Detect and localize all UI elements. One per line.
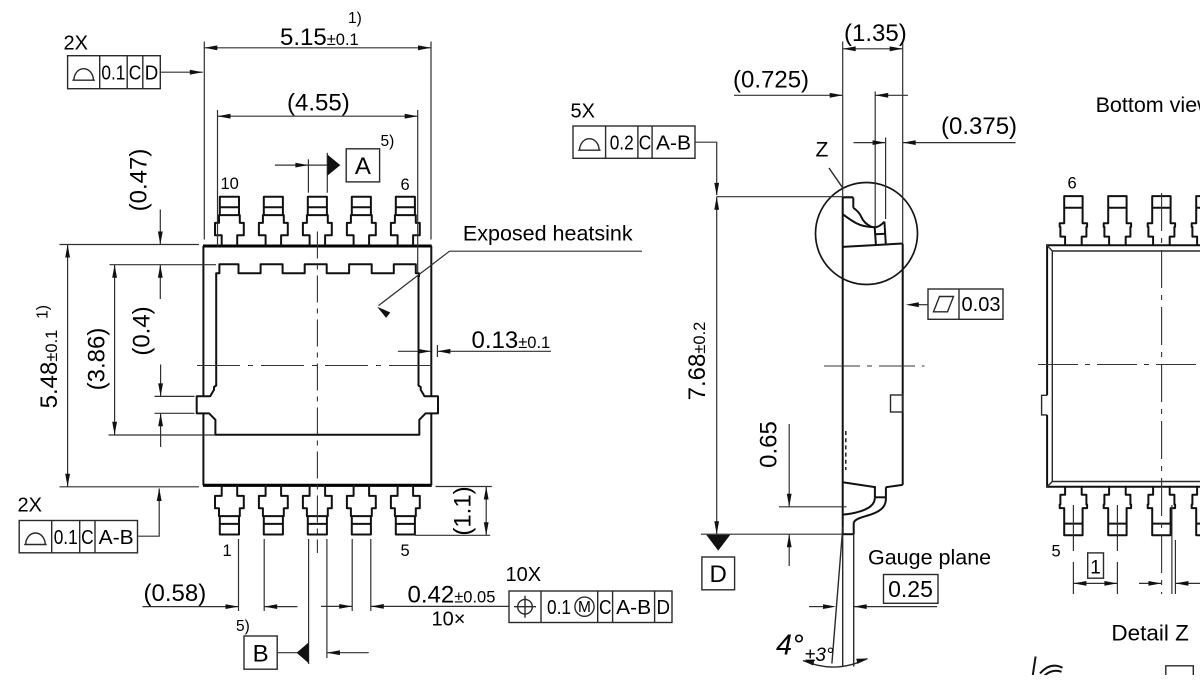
- detail Z enlarged lead fragment: [1033, 657, 1036, 676]
- svg-text:1): 1): [348, 10, 362, 27]
- front view top lead pin 10: [215, 197, 244, 247]
- bottom view pin 4 center extension line: [1116, 505, 1118, 551]
- extension line below pin at x=308.6: [308, 539, 310, 664]
- dim 0.25 box: [884, 575, 939, 604]
- side view mold gate mark on right face: [891, 395, 903, 412]
- svg-text:D: D: [710, 561, 727, 588]
- dim 0.65 dimension line lower tail: [788, 534, 790, 566]
- dim 5.48 extension line top: [60, 244, 200, 246]
- bottom view extension line a: [1171, 505, 1173, 594]
- extension line below pin at x=352.2: [351, 539, 353, 611]
- svg-text:A-B: A-B: [99, 527, 134, 549]
- svg-text:Exposed heatsink: Exposed heatsink: [463, 222, 633, 246]
- dim 7.68 extension line lead tip plane: [717, 196, 853, 198]
- gauge plane vertical line: [853, 534, 855, 666]
- svg-text:5: 5: [1052, 543, 1061, 561]
- dim 4 degree arc: [803, 659, 868, 668]
- datum B box: [244, 636, 277, 669]
- dim (1.1) extension line bottom: [415, 534, 490, 536]
- dim (3.86) extension line top: [110, 264, 217, 266]
- svg-text:C: C: [129, 63, 142, 85]
- side view left face and lead line: [842, 197, 844, 535]
- datum A box: [346, 149, 379, 182]
- svg-text:10: 10: [221, 175, 239, 193]
- svg-text:A: A: [355, 153, 371, 180]
- svg-text:C: C: [81, 527, 94, 549]
- svg-text:0.1: 0.1: [547, 597, 571, 619]
- datum D box: [702, 557, 735, 590]
- fcf top-left leader line: [160, 71, 203, 73]
- detail Z circle: [816, 183, 918, 285]
- dim (3.86) extension line bottom: [109, 434, 215, 436]
- side view top lead lower bend curve: [843, 214, 875, 227]
- svg-text:0.65: 0.65: [756, 421, 783, 468]
- bottom view horizontal centerline: [1038, 364, 1200, 366]
- side view body top draft edge: [843, 244, 903, 247]
- front view top lead pin 6: [391, 197, 420, 247]
- svg-text:0.1: 0.1: [101, 63, 125, 85]
- bottom view body outer outline: [1047, 245, 1200, 486]
- fcf position frame (position | 0.1 M | C | A-B | D): [509, 591, 672, 623]
- svg-text:10×: 10×: [432, 609, 466, 631]
- dim 0.65 dimension line upper: [788, 424, 790, 507]
- side view bottom lead foot right face: [853, 523, 855, 535]
- svg-text:0.2: 0.2: [610, 133, 634, 155]
- svg-text:2X: 2X: [18, 495, 42, 517]
- dim (0.47) dimension line lower tail: [159, 265, 161, 299]
- dim 7.68 dimension line: [716, 197, 718, 535]
- extension line below pin at x=264.2: [263, 539, 265, 611]
- exposed heatsink label underline: [450, 250, 643, 252]
- svg-text:1): 1): [35, 305, 52, 319]
- bottom view bottom lead pin 4: [1104, 486, 1131, 535]
- svg-text:(0.725): (0.725): [733, 67, 809, 94]
- datum B filled triangle: [297, 642, 309, 663]
- svg-text:A-B: A-B: [656, 133, 691, 155]
- front view bottom lead pin 2: [259, 485, 288, 535]
- fcf side leader line: [695, 142, 717, 195]
- svg-text:5): 5): [236, 618, 250, 635]
- svg-text:(0.375): (0.375): [941, 113, 1017, 140]
- front view package body bottom edge: [203, 484, 432, 487]
- front view package body left edge: [202, 246, 204, 396]
- dim 0.25 dimension line: [809, 606, 824, 608]
- bottom view pin 5 center extension line: [1072, 505, 1074, 551]
- side view top lead exit stub: [875, 227, 876, 244]
- side view top lead upper bend curve: [853, 208, 884, 228]
- extension line below pin at x=370.8: [370, 539, 372, 611]
- dim 5.48 extension line bottom: [60, 486, 200, 488]
- front view top lead pin 8: [303, 197, 332, 247]
- dim (4.55) extension line right: [417, 110, 419, 273]
- dim 5.15 extension line right: [430, 42, 432, 240]
- dim (0.375) dimension line: [854, 142, 886, 144]
- dim 0.13 dimension line left tail: [398, 350, 431, 352]
- side view top lead foot right face: [852, 197, 854, 207]
- datum A leader line: [275, 164, 327, 166]
- side view bottom lead foot bottom edge: [843, 533, 854, 535]
- svg-text:5): 5): [381, 133, 395, 150]
- dim (0.4) extension line top: [155, 395, 195, 397]
- svg-text:0.1: 0.1: [54, 527, 78, 549]
- dim (0.4) dimension line upper: [160, 365, 162, 397]
- svg-text:(4.55): (4.55): [287, 89, 350, 116]
- dim 1 (pitch) boxed value: [1088, 553, 1104, 578]
- svg-text:5: 5: [401, 542, 410, 560]
- detail Z leader line: [829, 168, 843, 188]
- exposed heatsink leader arrowhead: [377, 307, 390, 318]
- svg-text:A-B: A-B: [616, 597, 651, 619]
- bottom view bottom lead pin 5: [1060, 486, 1087, 535]
- bottom view top lead pin 9: [1192, 196, 1200, 245]
- dim 5.15 extension line left: [203, 42, 205, 240]
- dim (0.725) extension line: [874, 92, 876, 227]
- datum A extension line pin left edge: [307, 159, 309, 192]
- svg-text:2X: 2X: [64, 33, 88, 55]
- detail Z boxed dim fragment: [1166, 666, 1194, 675]
- front view top lead pin 7: [347, 197, 376, 247]
- dim 0.13 dimension line right tail: [437, 350, 551, 352]
- side view right face: [902, 244, 904, 485]
- dim (1.35) extension line left: [842, 42, 844, 197]
- svg-text:0.03: 0.03: [962, 294, 1001, 316]
- side view top lead foot top edge: [843, 196, 854, 198]
- side view bottom lead right bend curve: [854, 497, 886, 522]
- dim (1.1) dimension line: [485, 487, 487, 536]
- datum A extension line pin right edge: [326, 153, 328, 193]
- svg-text:0.25: 0.25: [888, 576, 933, 602]
- fcf top-left frame (profile symbol | 0.1 | C | D): [68, 56, 161, 89]
- front view package body top edge: [203, 244, 432, 247]
- datum B arrow to right extension line: [327, 652, 369, 654]
- dim (0.47) dimension line upper: [159, 210, 161, 245]
- dim (0.4) dimension line lower tail: [160, 413, 162, 447]
- extension line below pin at x=326.9: [326, 539, 328, 658]
- datum D filled triangle: [706, 535, 730, 551]
- svg-text:1: 1: [223, 542, 232, 560]
- front view vertical centerline: [316, 232, 318, 554]
- dim (3.86) dimension line: [114, 265, 116, 435]
- dim 0.13 extension line notch edge: [436, 345, 438, 357]
- extension line below pin at x=238.5: [238, 539, 240, 611]
- dim 5.48 dimension line: [67, 245, 69, 487]
- svg-text:(0.4): (0.4): [129, 306, 156, 355]
- svg-text:Z: Z: [816, 139, 829, 162]
- svg-text:C: C: [599, 597, 612, 619]
- datum A filled triangle: [328, 155, 341, 176]
- lead left face extension below seating: [842, 534, 844, 666]
- svg-text:10X: 10X: [506, 564, 542, 586]
- datum B leader line: [277, 652, 297, 654]
- lead face 4 degree slant line: [832, 526, 843, 664]
- dim (0.58) dimension line: [143, 606, 239, 608]
- dim 0.42 dimension line: [321, 605, 352, 607]
- front view bottom lead pin 1: [215, 485, 244, 535]
- side view bottom lead exit stub: [874, 487, 876, 497]
- bottom view bottom lead pin 3: [1148, 486, 1175, 535]
- datum A leader arrowhead: [295, 163, 308, 168]
- dim (4.55) extension line left: [217, 110, 219, 247]
- fcf side frame (profile symbol | 0.2 | C | A-B): [573, 126, 695, 158]
- bottom view bottom lead pin 2: [1192, 486, 1200, 535]
- fcf flatness frame (flatness | 0.03): [928, 289, 1003, 319]
- front view bottom lead pin 5: [391, 485, 420, 535]
- svg-text:(3.86): (3.86): [84, 328, 111, 391]
- fcf bottom-left leader line: [138, 489, 160, 537]
- svg-text:5X: 5X: [571, 101, 595, 123]
- bottom view top lead pin 7: [1104, 196, 1131, 245]
- dim (0.4) extension line bottom: [155, 412, 195, 414]
- bottom view exposed pad inner outline: [1052, 251, 1200, 482]
- bottom view vertical centerline: [1161, 193, 1163, 594]
- bottom view top lead pin 8: [1148, 196, 1175, 245]
- dim (4.55) dimension line: [218, 115, 418, 117]
- front view top lead pin 9: [259, 197, 288, 247]
- side view body bottom draft edges: [843, 482, 876, 487]
- dim (0.375) extension line: [885, 138, 887, 220]
- svg-text:4°: 4°: [776, 630, 804, 662]
- front view horizontal centerline: [197, 365, 437, 367]
- dim (1.35) extension line right: [902, 42, 904, 244]
- front view bottom lead pin 4: [347, 485, 376, 535]
- svg-text:(1.35): (1.35): [844, 20, 907, 47]
- svg-text:6: 6: [401, 176, 410, 194]
- fcf flatness leader line: [917, 304, 928, 306]
- fcf bottom-left frame (profile symbol | 0.1 | C | A-B): [19, 521, 137, 553]
- svg-text:Bottom view: Bottom view: [1096, 93, 1200, 117]
- front view package body right edge: [430, 246, 432, 396]
- svg-text:D: D: [657, 597, 671, 619]
- exposed heatsink leader line: [379, 251, 450, 305]
- bottom view side tab: [1042, 395, 1048, 415]
- dim (1.35) dimension line: [843, 48, 903, 50]
- svg-text:C: C: [639, 133, 652, 155]
- svg-text:M: M: [578, 599, 591, 616]
- bottom view top lead pin 6: [1060, 196, 1087, 245]
- exposed heatsink castellated top outline: [216, 264, 419, 277]
- exposed heatsink side outline with side tabs and bottom edge: [197, 277, 438, 435]
- dim 1 (pitch) dimension line: [1073, 582, 1117, 584]
- dim (0.725) dimension line: [734, 94, 843, 96]
- svg-text:1: 1: [1090, 558, 1101, 579]
- svg-text:Detail Z: Detail Z: [1111, 621, 1189, 646]
- svg-text:B: B: [253, 641, 269, 668]
- svg-text:(0.47): (0.47): [126, 149, 153, 212]
- svg-text:6: 6: [1068, 175, 1077, 193]
- front view bottom lead pin 3: [303, 485, 332, 535]
- svg-text:(0.58): (0.58): [144, 580, 207, 607]
- svg-text:Gauge plane: Gauge plane: [868, 546, 991, 570]
- dim (1.1) extension line top: [436, 486, 492, 488]
- seating plane line: [701, 533, 843, 535]
- side view bottom lead left bend curve: [843, 497, 875, 514]
- bottom view right dimension line: [1139, 582, 1161, 584]
- bottom view extension line b: [1174, 540, 1176, 594]
- side view hidden pad edge dashed: [845, 431, 847, 470]
- svg-text:(1.1): (1.1): [450, 486, 477, 535]
- dim 0.65 extension line: [779, 506, 847, 508]
- dim 5.15 dimension line: [204, 47, 431, 49]
- side view horizontal centerline: [824, 365, 925, 367]
- svg-text:D: D: [145, 63, 159, 85]
